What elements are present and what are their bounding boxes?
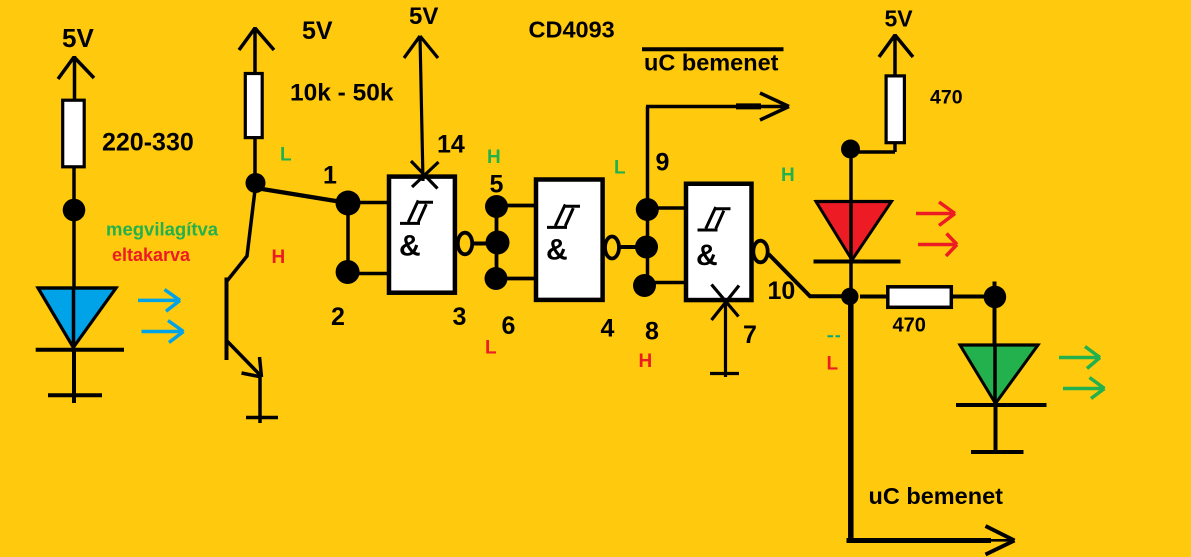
svg-text:uC bemenet: uC bemenet	[644, 50, 779, 76]
svg-text:470: 470	[893, 315, 926, 337]
svg-text:2: 2	[331, 303, 345, 331]
svg-text:7: 7	[743, 321, 757, 349]
svg-text:10k - 50k: 10k - 50k	[290, 80, 394, 107]
svg-text:L: L	[614, 158, 626, 179]
svg-text:8: 8	[645, 318, 659, 346]
svg-text:5V: 5V	[62, 23, 94, 53]
svg-text:470: 470	[930, 87, 963, 109]
svg-text:eltakarva: eltakarva	[112, 245, 191, 265]
svg-text:9: 9	[656, 149, 670, 177]
svg-text:CD4093: CD4093	[529, 16, 615, 42]
svg-text:uC bemenet: uC bemenet	[869, 483, 1004, 509]
svg-text:5V: 5V	[302, 17, 333, 45]
svg-text:&: &	[399, 230, 421, 263]
svg-text:H: H	[272, 247, 286, 268]
svg-text:H: H	[639, 351, 653, 372]
svg-text:5: 5	[490, 171, 504, 199]
svg-text:220-330: 220-330	[102, 129, 194, 157]
svg-text:3: 3	[453, 303, 467, 331]
svg-text:1: 1	[323, 162, 337, 190]
svg-text:10: 10	[768, 277, 796, 305]
svg-text:H: H	[487, 147, 501, 168]
svg-text:6: 6	[502, 312, 516, 340]
svg-text:H: H	[781, 165, 795, 186]
svg-text:L: L	[280, 145, 292, 166]
svg-text:&: &	[696, 239, 718, 272]
svg-text:L: L	[827, 354, 839, 375]
svg-text:5V: 5V	[409, 3, 438, 30]
svg-text:megvilagítva: megvilagítva	[106, 219, 219, 240]
svg-text:L: L	[485, 338, 497, 359]
svg-text:14: 14	[437, 131, 465, 159]
svg-text:5V: 5V	[885, 6, 914, 32]
svg-text:&: &	[546, 234, 568, 267]
svg-text:4: 4	[601, 315, 615, 343]
